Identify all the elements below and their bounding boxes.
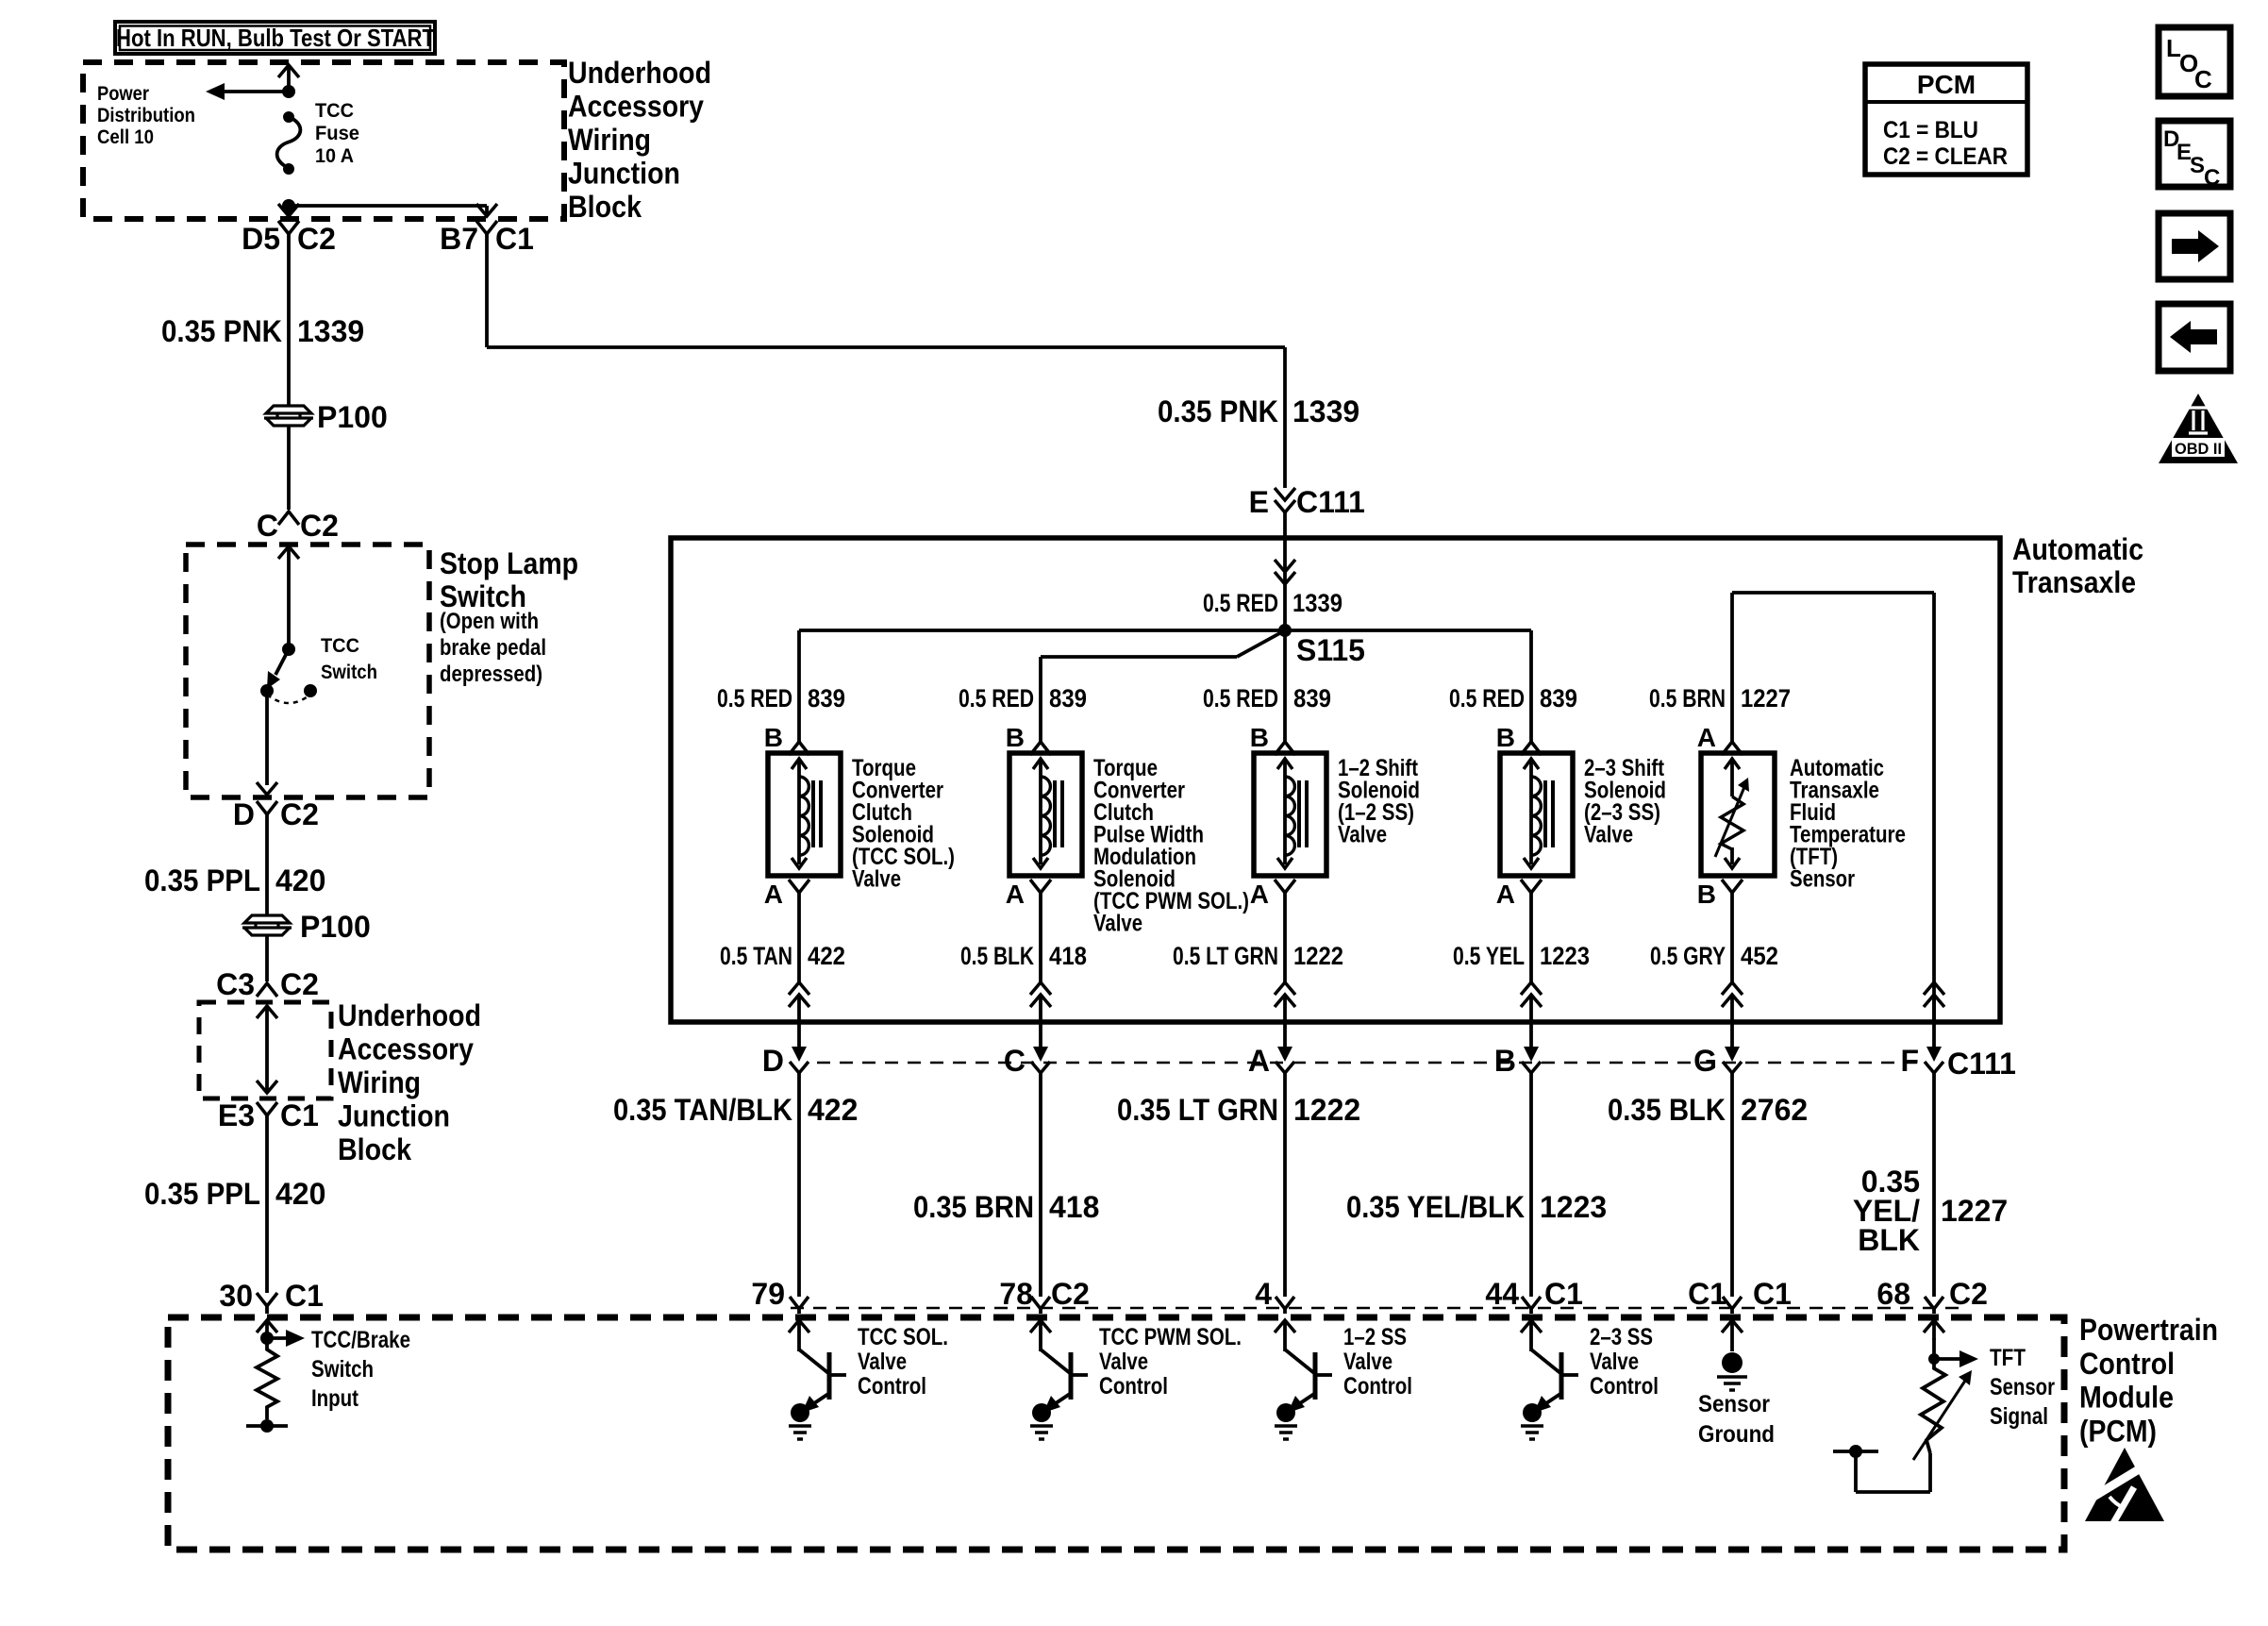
svg-text:B: B xyxy=(1697,880,1716,909)
svg-text:1339: 1339 xyxy=(297,314,364,348)
svg-text:0.35 PNK: 0.35 PNK xyxy=(161,314,282,348)
svg-text:C2: C2 xyxy=(297,222,336,256)
svg-text:1222: 1222 xyxy=(1293,942,1343,970)
svg-text:P100: P100 xyxy=(300,910,371,944)
svg-text:44: 44 xyxy=(1485,1277,1519,1311)
svg-text:P100: P100 xyxy=(317,400,388,434)
svg-text:Valve: Valve xyxy=(1099,1349,1148,1375)
svg-text:C2: C2 xyxy=(280,967,319,1001)
svg-text:OBD II: OBD II xyxy=(2175,440,2222,458)
svg-text:TCC PWM SOL.: TCC PWM SOL. xyxy=(1099,1324,1242,1350)
svg-text:1339: 1339 xyxy=(1292,589,1342,617)
svg-text:Automatic: Automatic xyxy=(2012,532,2143,566)
svg-text:A: A xyxy=(1250,880,1269,909)
svg-text:Input: Input xyxy=(311,1385,359,1412)
svg-text:1222: 1222 xyxy=(1293,1093,1360,1127)
svg-text:Switch: Switch xyxy=(321,662,377,683)
svg-text:0.5 RED: 0.5 RED xyxy=(717,684,792,712)
svg-text:0.35 BRN: 0.35 BRN xyxy=(913,1190,1034,1224)
svg-text:B: B xyxy=(1496,723,1515,752)
svg-text:A: A xyxy=(764,880,783,909)
svg-text:Transaxle: Transaxle xyxy=(2012,565,2136,599)
svg-text:Powertrain: Powertrain xyxy=(2079,1313,2218,1347)
svg-text:C2: C2 xyxy=(1051,1277,1090,1311)
svg-text:0.5 RED: 0.5 RED xyxy=(1203,684,1278,712)
svg-text:420: 420 xyxy=(275,863,325,897)
svg-text:10 A: 10 A xyxy=(315,145,354,167)
svg-text:Control: Control xyxy=(2079,1347,2175,1381)
svg-text:Valve: Valve xyxy=(852,866,901,893)
svg-text:Fuse: Fuse xyxy=(315,123,359,144)
svg-text:C111: C111 xyxy=(1947,1047,2016,1081)
svg-text:Valve: Valve xyxy=(1343,1349,1392,1375)
svg-text:1227: 1227 xyxy=(1741,684,1791,712)
svg-text:S: S xyxy=(2190,153,2205,178)
svg-text:Power: Power xyxy=(97,83,149,105)
svg-text:TFT: TFT xyxy=(1990,1345,2026,1371)
svg-text:E: E xyxy=(1249,485,1269,519)
svg-text:Block: Block xyxy=(568,190,642,224)
svg-text:68: 68 xyxy=(1876,1277,1910,1311)
svg-text:C2: C2 xyxy=(280,797,319,831)
svg-text:0.35 YEL/BLK: 0.35 YEL/BLK xyxy=(1346,1190,1525,1224)
svg-text:0.5 LT GRN: 0.5 LT GRN xyxy=(1173,942,1278,970)
svg-text:Sensor: Sensor xyxy=(1698,1391,1770,1417)
svg-text:Distribution: Distribution xyxy=(97,105,195,126)
svg-text:0.5 TAN: 0.5 TAN xyxy=(720,942,792,970)
svg-text:Switch: Switch xyxy=(311,1356,374,1383)
svg-text:0.35 BLK: 0.35 BLK xyxy=(1608,1093,1726,1127)
svg-text:C1: C1 xyxy=(1688,1277,1726,1311)
svg-text:418: 418 xyxy=(1049,1190,1099,1224)
svg-text:0.5 BLK: 0.5 BLK xyxy=(960,942,1034,970)
svg-text:Sensor: Sensor xyxy=(1790,866,1855,893)
svg-text:A: A xyxy=(1697,723,1716,752)
svg-text:839: 839 xyxy=(1293,684,1331,712)
svg-text:D5: D5 xyxy=(242,222,280,256)
svg-text:0.5 RED: 0.5 RED xyxy=(1449,684,1525,712)
svg-text:1–2 SS: 1–2 SS xyxy=(1343,1324,1407,1350)
svg-text:Signal: Signal xyxy=(1990,1403,2048,1430)
svg-text:C2: C2 xyxy=(1949,1277,1988,1311)
svg-text:Control: Control xyxy=(1099,1373,1168,1400)
svg-text:C: C xyxy=(2204,165,2220,191)
svg-text:C: C xyxy=(257,509,278,543)
svg-text:TCC SOL.: TCC SOL. xyxy=(858,1324,948,1350)
svg-text:C3: C3 xyxy=(216,967,255,1001)
svg-text:Wiring: Wiring xyxy=(568,123,651,157)
svg-text:D: D xyxy=(233,797,255,831)
svg-text:A: A xyxy=(1496,880,1515,909)
svg-text:Ground: Ground xyxy=(1698,1421,1775,1448)
svg-text:420: 420 xyxy=(275,1177,325,1211)
svg-text:C1: C1 xyxy=(1544,1277,1583,1311)
svg-text:0.35 LT GRN: 0.35 LT GRN xyxy=(1117,1093,1278,1127)
svg-text:C2: C2 xyxy=(300,509,339,543)
svg-text:B: B xyxy=(1494,1044,1516,1078)
svg-text:Accessory: Accessory xyxy=(568,90,704,124)
svg-text:422: 422 xyxy=(808,942,845,970)
svg-text:brake pedal: brake pedal xyxy=(440,635,546,661)
svg-text:Junction: Junction xyxy=(338,1099,450,1133)
svg-text:Cell 10: Cell 10 xyxy=(97,126,154,148)
svg-text:Underhood: Underhood xyxy=(568,56,711,90)
svg-text:B: B xyxy=(1006,723,1025,752)
svg-text:418: 418 xyxy=(1049,942,1087,970)
svg-text:30: 30 xyxy=(219,1279,253,1313)
svg-text:79: 79 xyxy=(751,1277,785,1311)
svg-text:Accessory: Accessory xyxy=(338,1032,474,1066)
svg-text:C1: C1 xyxy=(285,1279,324,1313)
svg-text:0.5 BRN: 0.5 BRN xyxy=(1649,684,1726,712)
svg-text:PCM: PCM xyxy=(1917,70,1976,99)
svg-text:TCC: TCC xyxy=(321,635,359,657)
svg-text:Control: Control xyxy=(858,1373,926,1400)
svg-text:1227: 1227 xyxy=(1941,1194,2008,1228)
svg-text:1223: 1223 xyxy=(1540,1190,1607,1224)
svg-text:0.35 PPL: 0.35 PPL xyxy=(144,863,260,897)
svg-text:C2 = CLEAR: C2 = CLEAR xyxy=(1883,143,2008,170)
svg-text:B: B xyxy=(1250,723,1269,752)
svg-text:G: G xyxy=(1693,1044,1717,1078)
svg-text:B7: B7 xyxy=(440,222,478,256)
svg-text:Hot In RUN, Bulb Test Or START: Hot In RUN, Bulb Test Or START xyxy=(116,24,435,52)
svg-text:Junction: Junction xyxy=(568,157,680,191)
svg-text:C1: C1 xyxy=(495,222,534,256)
svg-text:C1: C1 xyxy=(1753,1277,1792,1311)
svg-text:1339: 1339 xyxy=(1292,394,1359,428)
svg-text:Control: Control xyxy=(1590,1373,1659,1400)
svg-text:A: A xyxy=(1248,1044,1270,1078)
svg-text:1223: 1223 xyxy=(1540,942,1590,970)
svg-text:F: F xyxy=(1900,1044,1919,1078)
svg-text:Underhood: Underhood xyxy=(338,998,481,1032)
svg-text:Control: Control xyxy=(1343,1373,1412,1400)
svg-text:839: 839 xyxy=(1049,684,1087,712)
svg-text:B: B xyxy=(764,723,783,752)
svg-text:2–3 SS: 2–3 SS xyxy=(1590,1324,1653,1350)
svg-text:Valve: Valve xyxy=(1338,822,1387,848)
svg-text:C111: C111 xyxy=(1296,485,1365,519)
svg-text:2762: 2762 xyxy=(1741,1093,1808,1127)
svg-text:C: C xyxy=(1004,1044,1026,1078)
svg-text:Valve: Valve xyxy=(858,1349,907,1375)
svg-text:422: 422 xyxy=(808,1093,858,1127)
svg-text:0.35 PPL: 0.35 PPL xyxy=(144,1177,260,1211)
svg-text:E3: E3 xyxy=(218,1098,255,1132)
svg-text:Block: Block xyxy=(338,1132,411,1166)
svg-text:0.35 TAN/BLK: 0.35 TAN/BLK xyxy=(613,1093,792,1127)
svg-text:78: 78 xyxy=(999,1277,1033,1311)
svg-text:Module: Module xyxy=(2079,1381,2174,1415)
svg-text:0.5 RED: 0.5 RED xyxy=(959,684,1034,712)
svg-text:Valve: Valve xyxy=(1093,911,1142,937)
svg-text:BLK: BLK xyxy=(1858,1223,1920,1257)
svg-text:TCC: TCC xyxy=(315,100,354,122)
svg-text:(Open with: (Open with xyxy=(440,609,539,634)
svg-text:Stop Lamp: Stop Lamp xyxy=(440,546,578,580)
svg-text:839: 839 xyxy=(808,684,845,712)
svg-text:452: 452 xyxy=(1741,942,1778,970)
svg-text:0.5 YEL: 0.5 YEL xyxy=(1453,942,1525,970)
svg-text:0.35 PNK: 0.35 PNK xyxy=(1158,394,1278,428)
svg-text:4: 4 xyxy=(1255,1277,1272,1311)
svg-text:C1 = BLU: C1 = BLU xyxy=(1883,117,1978,143)
svg-text:Wiring: Wiring xyxy=(338,1065,421,1099)
svg-text:D: D xyxy=(762,1044,784,1078)
svg-text:0.5 GRY: 0.5 GRY xyxy=(1650,942,1726,970)
svg-text:C: C xyxy=(2194,65,2212,93)
svg-text:Valve: Valve xyxy=(1590,1349,1639,1375)
svg-text:0.5 RED: 0.5 RED xyxy=(1203,589,1278,617)
svg-text:A: A xyxy=(1006,880,1025,909)
svg-text:839: 839 xyxy=(1540,684,1577,712)
svg-text:C1: C1 xyxy=(280,1098,319,1132)
svg-text:depressed): depressed) xyxy=(440,662,542,687)
svg-text:TCC/Brake: TCC/Brake xyxy=(311,1327,410,1353)
svg-text:(PCM): (PCM) xyxy=(2079,1414,2157,1448)
svg-text:Valve: Valve xyxy=(1584,822,1633,848)
svg-text:S115: S115 xyxy=(1296,633,1365,667)
svg-text:Sensor: Sensor xyxy=(1990,1374,2055,1400)
